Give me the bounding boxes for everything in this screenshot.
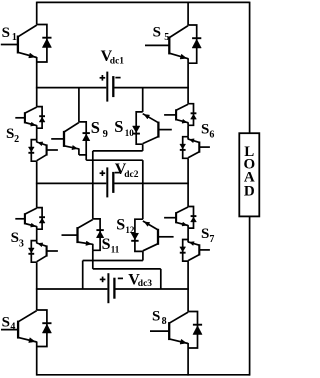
wire left rail: S3 to S4 (node with Vdc3+) <box>36 262 38 310</box>
wire Vdc3 right leg down to Vdc3- wire <box>160 269 162 289</box>
transistor S7b (lower IGBT of bidirectional switch S7) <box>180 240 210 262</box>
svg-text:S: S <box>91 118 100 137</box>
wire Vdc3 right lead (battery - to S7/S8 node) <box>115 288 188 290</box>
label S5 <box>153 25 170 43</box>
plus sign Vdc2 <box>100 170 106 176</box>
label S8 <box>152 309 167 328</box>
wire top rail <box>37 1 250 3</box>
svg-text:dc1: dc1 <box>110 57 125 67</box>
svg-text:1: 1 <box>12 32 17 43</box>
plus sign Vdc1 <box>100 75 106 81</box>
load box <box>239 133 259 216</box>
transistor S2b (lower IGBT of bidirectional switch S2) <box>28 140 58 162</box>
transistor S11 (IGBT with antiparallel diode) <box>62 219 104 250</box>
minus sign Vdc1 <box>115 77 120 79</box>
svg-text:9: 9 <box>103 129 108 140</box>
wire right inner rail: top rail to S5 <box>187 2 189 25</box>
wire S2 common emitter link <box>36 128 38 139</box>
svg-text:dc2: dc2 <box>124 170 139 180</box>
wire right rail lower segment <box>249 216 251 375</box>
svg-text:S: S <box>116 217 125 234</box>
wire S10 collector stub down <box>142 144 144 151</box>
label S11 <box>102 236 120 255</box>
battery Vdc1 <box>107 72 113 102</box>
svg-text:S: S <box>114 117 123 136</box>
transistor S12 (IGBT with antiparallel diode) <box>131 219 173 251</box>
wire left rail: S4 emitter to bottom rail <box>36 347 38 376</box>
label S12 <box>116 217 135 236</box>
wire S7 common emitter link <box>187 228 189 239</box>
svg-text:S: S <box>6 126 14 142</box>
svg-text:6: 6 <box>209 130 214 141</box>
svg-text:11: 11 <box>111 245 120 255</box>
label Vdc1 <box>101 48 125 67</box>
wire bottom rail <box>37 374 250 376</box>
svg-text:S: S <box>201 226 209 242</box>
wire Vdc1 left lead (S1/S2 node to battery +) <box>36 87 106 89</box>
svg-text:S: S <box>11 230 19 246</box>
transistor S10 (IGBT with antiparallel diode) <box>133 112 172 144</box>
wire Vdc2 left leg (S10 to Vdc2+ to S11 collector) <box>92 151 94 219</box>
svg-text:3: 3 <box>19 239 24 250</box>
transistor S2a (upper IGBT of bidirectional switch S2) <box>15 107 45 129</box>
transistor S6a (upper IGBT of bidirectional switch S6) <box>164 104 196 126</box>
wire Vdc2 right leg (S9 to Vdc2- to S12 emitter) <box>142 160 144 219</box>
wire S11 emitter down across Vdc3 upper link <box>92 250 94 269</box>
label S2 <box>6 126 19 145</box>
wire S12 collector stub down <box>142 251 144 260</box>
label S10 <box>114 117 134 138</box>
label Vdc3 <box>128 272 152 290</box>
battery Vdc3 <box>108 273 114 303</box>
svg-text:S: S <box>2 315 10 331</box>
wire S9 emitter stub down <box>85 155 87 160</box>
svg-text:D: D <box>244 183 255 199</box>
transistor S6b (lower IGBT of bidirectional switch S6) <box>180 137 210 159</box>
wire S12 collector to Vdc3 left leg <box>83 260 143 262</box>
load label LOAD <box>243 144 255 199</box>
wire S9 emitter to Vdc2 right leg <box>86 159 143 161</box>
transistor S1 (IGBT with antiparallel diode) <box>1 25 52 63</box>
wire S10 collector to Vdc2 left leg <box>93 150 143 152</box>
wire Vdc2 left lead (S2/S3 node to battery +) <box>36 182 106 184</box>
label S7 <box>201 226 214 245</box>
svg-text:8: 8 <box>162 316 167 327</box>
wire right inner rail: S8 emitter to bottom rail <box>187 348 189 376</box>
plus sign Vdc3 <box>100 277 106 283</box>
svg-text:S: S <box>102 236 111 253</box>
wire left rail: S1 emitter to S2 (node with Vdc1+) <box>36 62 38 107</box>
wire Vdc3 left leg down to Vdc3+ wire <box>82 261 84 290</box>
label Vdc2 <box>115 161 139 180</box>
transistor S5 (IGBT with antiparallel diode) <box>145 25 201 63</box>
wire S6 common emitter link <box>187 125 189 136</box>
svg-text:S: S <box>152 309 160 325</box>
wire S3 common emitter link <box>36 229 38 240</box>
wire S9 collector drop from Vdc1 line <box>78 88 80 122</box>
wire right inner rail: S6 to S7 (node with Vdc2-) <box>187 158 189 206</box>
minus sign Vdc3 <box>118 277 123 279</box>
wire Vdc2 right lead (battery - to S6/S7 node) <box>114 182 189 184</box>
svg-text:S: S <box>201 122 209 138</box>
battery Vdc2 <box>107 167 113 197</box>
wire left rail: S2 to S3 (node with Vdc2+) <box>36 161 38 207</box>
svg-text:7: 7 <box>209 234 214 245</box>
svg-text:10: 10 <box>125 128 135 138</box>
svg-text:2: 2 <box>14 134 19 145</box>
transistor S9 (IGBT with antiparallel diode) <box>51 122 90 155</box>
label S4 <box>2 315 16 333</box>
label S6 <box>201 122 214 141</box>
wire right rail upper segment <box>249 2 251 134</box>
svg-text:5: 5 <box>164 32 169 43</box>
svg-text:12: 12 <box>125 225 134 235</box>
transistor S7a (upper IGBT of bidirectional switch S7) <box>164 207 196 229</box>
wire Vdc3 left lead (S3/S4 node to battery +) <box>36 288 108 290</box>
wire left rail: top rail to S1 <box>36 2 38 25</box>
label S1 <box>2 25 17 43</box>
wire S10 drop from Vdc1 line <box>142 88 144 112</box>
svg-text:4: 4 <box>10 322 15 333</box>
wire S11 emitter to Vdc3 right leg <box>93 268 161 270</box>
wire right inner rail: S7 to S8 (node with Vdc3-) <box>187 261 189 311</box>
transistor S8 (IGBT with antiparallel diode) <box>150 312 202 349</box>
transistor S4 (IGBT with antiparallel diode) <box>1 310 52 347</box>
transistor S3a (upper IGBT of bidirectional switch S3) <box>15 208 45 230</box>
minus sign Vdc2 <box>115 172 120 174</box>
svg-text:dc3: dc3 <box>138 279 153 289</box>
svg-text:S: S <box>2 25 10 41</box>
wire right inner rail: S5 emitter to S6 (node with Vdc1-) <box>187 63 189 103</box>
label S3 <box>11 230 24 249</box>
svg-text:S: S <box>153 25 161 41</box>
label S9 <box>91 118 108 140</box>
transistor S3b (lower IGBT of bidirectional switch S3) <box>28 241 58 263</box>
wire Vdc1 right lead (battery - to S5/S6 node) <box>114 87 189 89</box>
